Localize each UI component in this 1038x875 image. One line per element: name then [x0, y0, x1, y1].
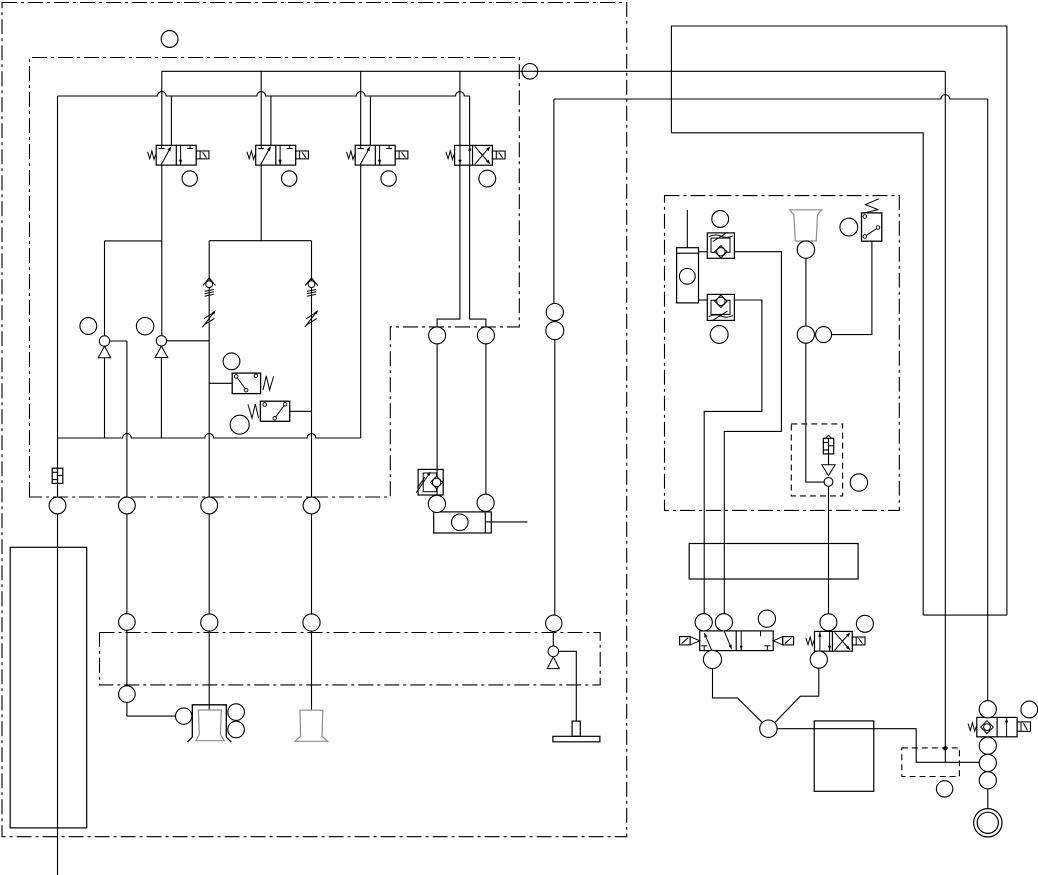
suction cup 1 (grey) [196, 710, 224, 741]
wire: pilot drop x=554 lower to blow-off [554, 340, 556, 616]
wire: CV3 to blow-off nozzle [559, 651, 577, 721]
port circle at (209.2,505.5) [201, 497, 218, 514]
port circle at (805.9,249.6) [797, 241, 814, 258]
port circle at (987.8,780.3) [979, 772, 996, 789]
port circle at (231.5,361.3) [223, 353, 240, 370]
3/2 solenoid valve V4 (normally open) [455, 145, 493, 165]
check valve CV2 [156, 336, 166, 346]
port circle at (1029.3,709.5) [1021, 701, 1038, 718]
wire: FC2 output to 5/2 valve supply line [704, 300, 762, 614]
port circle at (183.7,716.1) [176, 708, 192, 724]
wire: drop bus2 to valve V2 [270, 96, 272, 145]
port circle at (554.8,330.6) [546, 322, 564, 340]
wire: ejector exhaust stub [491, 521, 527, 523]
wire: check valve CV2 below [160, 358, 162, 439]
port circle at (126.9,622.0) [119, 614, 136, 631]
wire: V4 output left branch to port D1 [437, 165, 460, 327]
port circle at (703.7,622.3) [695, 614, 712, 631]
wire: V1 output down to node A [161, 165, 163, 241]
port circle at (864.9,623.8) [856, 615, 873, 632]
port circle at (239.7,424.7) [230, 415, 249, 434]
check valve CV1 [99, 336, 109, 346]
one-way flow control valve FC3 [418, 469, 443, 495]
port circle at (987.8,745.7) [979, 737, 996, 754]
wire: port D2 down to ejector [485, 344, 487, 494]
port circle at (88.3,326.0) [80, 318, 97, 335]
port circle at (437.1,335.4) [429, 327, 446, 344]
wire: pilot drop x=554 upper [553, 99, 555, 304]
wire: pilot line (y=99) with hop at x=945 [554, 95, 988, 99]
port circle at (858.9,482.5) [850, 474, 867, 491]
V5 left pilot solenoid [680, 637, 691, 645]
left valve-island enclosure (dash-dot, L-shaped) [30, 58, 520, 498]
port circle at (554.8,312.1) [546, 304, 563, 321]
port circle at (487.3,178.6) [479, 170, 496, 187]
port circle on bus1 (open) [522, 64, 538, 80]
inline muffler on tank line [52, 468, 63, 483]
wire: V1 line down to check valve CV2 [161, 241, 163, 336]
wire: FC1 output to 5/2 valve pilot line [724, 252, 781, 614]
3/2 solenoid valve V6 (pick) [815, 631, 853, 651]
wire: pressure switch S2 output stub [290, 410, 312, 412]
port circle at (289.2,178.5) [282, 171, 297, 186]
wire: port D1 down through flow control to ejector [436, 344, 438, 496]
port circle at (828.4,622.3) [820, 614, 837, 631]
one-way flow control FC2 [707, 294, 734, 320]
silencer sub-assembly enclosure (dashed) [791, 424, 842, 496]
wire: collector bus (y=438) with hops [58, 434, 361, 438]
suction cup 2 (grey) [295, 710, 328, 741]
port circle at (848.8,227.1) [840, 218, 858, 236]
suction cup 1 mounting bracket [192, 705, 226, 737]
wire: branch down line x=311 (to suction cup 2) [311, 241, 313, 711]
compressed air source (compressor) [974, 809, 1002, 837]
port circle at (805.8,334.6) [797, 326, 814, 343]
wire: long loop lower run [671, 133, 923, 615]
spring check valve on line x=311 [305, 278, 311, 286]
wire: CV2 side branch to line x=209 [167, 340, 210, 342]
wire: long loop top run [671, 26, 1007, 615]
port circle at (169.6,39.0) [161, 31, 178, 48]
vacuum switch S3 [862, 213, 882, 241]
gripper interface box [814, 721, 874, 791]
port circle at (553.8,623.3) [546, 615, 562, 631]
wire: pilot drop x=988 to shut-off valve [987, 99, 989, 701]
wire: funnel to gauge circles [805, 258, 807, 326]
port circle at (57.5,505.5) [49, 497, 66, 514]
port circle at (719.2,334.5) [710, 326, 728, 344]
blow-off nozzle (T shape) [572, 721, 580, 736]
port circle at (145.1,326.2) [136, 318, 153, 335]
wire: V4 output right branch to port D2 [470, 165, 486, 327]
wire: loop closing link y=615 [923, 614, 1007, 616]
wire: branch node A to check valve CV1 [105, 240, 162, 242]
wire: V3 output down to collector bus [360, 165, 362, 438]
port circle at (768.4,728.7) [760, 720, 777, 737]
wire: silencer down to pick valve [828, 486, 830, 614]
wire: supply bus 1 (y=71) [162, 70, 946, 72]
wire: CV1 side branch to line x=127 [110, 340, 127, 342]
adjustable throttle on line x=311 [306, 312, 317, 319]
wire: filter to FC1 [699, 251, 708, 253]
wire: gauge pair down to vacuum silencer assembly [806, 343, 824, 482]
3/2 solenoid valve V1 [156, 145, 196, 165]
port circle at (126.9,694.1) [119, 686, 136, 703]
3/2 solenoid valve V3 [355, 145, 395, 165]
port circle at (987.8,762.9) [979, 754, 996, 771]
wire: drop bus1 to valve V3 [360, 71, 362, 145]
port circle at (311.5,505.5) [303, 497, 320, 514]
port circle at (126.9,505.5) [119, 497, 136, 514]
wire: drop bus1 to valve V1 [161, 71, 163, 145]
outer machine enclosure (dash-dot boundary) [2, 3, 627, 837]
wire: branch down line x=209 (to suction cup 1) [208, 241, 210, 710]
wire: V5 work port down-left of vee [713, 668, 763, 723]
one-way flow control FC1 [707, 233, 734, 258]
spring check valve on line x=209 [203, 278, 209, 286]
wire: node B cross arm [209, 240, 311, 242]
port circle at (712.5,659.4) [703, 650, 721, 668]
port circle at (485.6,502.8) [477, 494, 494, 511]
wire: pressure switch S1 input stub [209, 382, 232, 384]
wire: below port to check valve CV3 [552, 632, 554, 647]
port circle at (818.8,659.6) [810, 651, 827, 668]
pressure switch S2 [260, 401, 289, 421]
wire: check valve CV1 below [104, 357, 106, 438]
vacuum filter F1 [677, 248, 699, 303]
port circle at (311.5,622.5) [303, 614, 320, 631]
vacuum ejector block [434, 512, 492, 533]
port circle at (485.9,335.4) [477, 327, 494, 344]
5/2 double solenoid valve V5 [700, 631, 774, 651]
2/2 shut-off supply valve V7 [977, 717, 1017, 736]
wire: supply bus 2 (y=96) with crossover hops [58, 92, 470, 96]
wire: tank line x=57 (bus2 corner down through tank) [57, 96, 59, 875]
pressure switch S1 [232, 373, 260, 394]
gripper zone enclosure (dash-dot band at bottom) [100, 633, 601, 685]
port circle at (236.1,712.1) [228, 704, 245, 721]
supply elbow enclosure (dashed) [902, 748, 960, 777]
wire: V6 work port down-right of vee [774, 668, 819, 723]
port circle at (209.3,622.5) [201, 614, 218, 631]
port circle at (823.6,334.6) [816, 327, 832, 343]
port circle at (987.8,709.3) [979, 701, 996, 718]
V5 right pilot solenoid [773, 637, 783, 645]
vacuum check cone (triangle down) [822, 465, 835, 476]
port circle at (828.5,481.9) [824, 478, 833, 487]
port circle at (388.6,178.5) [381, 171, 396, 186]
adjustable throttle on line x=209 [204, 312, 215, 319]
wire: line x=127 elbow to cup port circle [127, 715, 175, 717]
exhaust funnel silencer (grey) [790, 210, 822, 241]
port circle at (189.7,178.5) [182, 171, 197, 186]
interface manifold plate [689, 544, 858, 580]
wire: drop bus1 to valve V2 [260, 71, 262, 145]
check valve CV3 (blow-off) [548, 646, 559, 657]
wire: drop bus2 to valve V4 [469, 96, 471, 145]
wire: drop bus1 to valve V4 [459, 71, 461, 145]
wire: compressor to valve V7 [987, 789, 989, 809]
right vacuum-unit enclosure (dash-dot) [665, 196, 900, 511]
wire: vacuum switch S3 sense line [832, 241, 872, 334]
port circle at (944.6,788.9) [936, 781, 952, 797]
3/2 solenoid valve V2 [256, 145, 296, 165]
junction dot on supply line [943, 746, 947, 750]
port circle at (436.9,503.9) [428, 495, 445, 512]
vacuum reservoir tank [10, 547, 87, 828]
port circle at (687.3,276.3) [679, 268, 695, 284]
wire: bus1 drop to supply manifold x=945 [944, 71, 946, 762]
wire: drop bus2 to valve V3 [369, 96, 371, 145]
port circle at (766.9,618.7) [758, 610, 775, 627]
wire: vee node to gripper box and supply elbow [777, 729, 979, 763]
port circle at (236.1,729.5) [228, 721, 245, 738]
wire: cartridge to check cone [828, 454, 830, 465]
wire: V2 output down to node B [260, 165, 262, 241]
wire: filter F1 top stub [686, 210, 688, 248]
port circle at (720.2,219.0) [712, 211, 729, 228]
port circle at (723.9,622.3) [715, 614, 732, 631]
wire: drop bus2 to valve V1 [170, 96, 172, 145]
wire: filter to FC2 [699, 299, 708, 301]
silencer cartridge [823, 438, 833, 454]
